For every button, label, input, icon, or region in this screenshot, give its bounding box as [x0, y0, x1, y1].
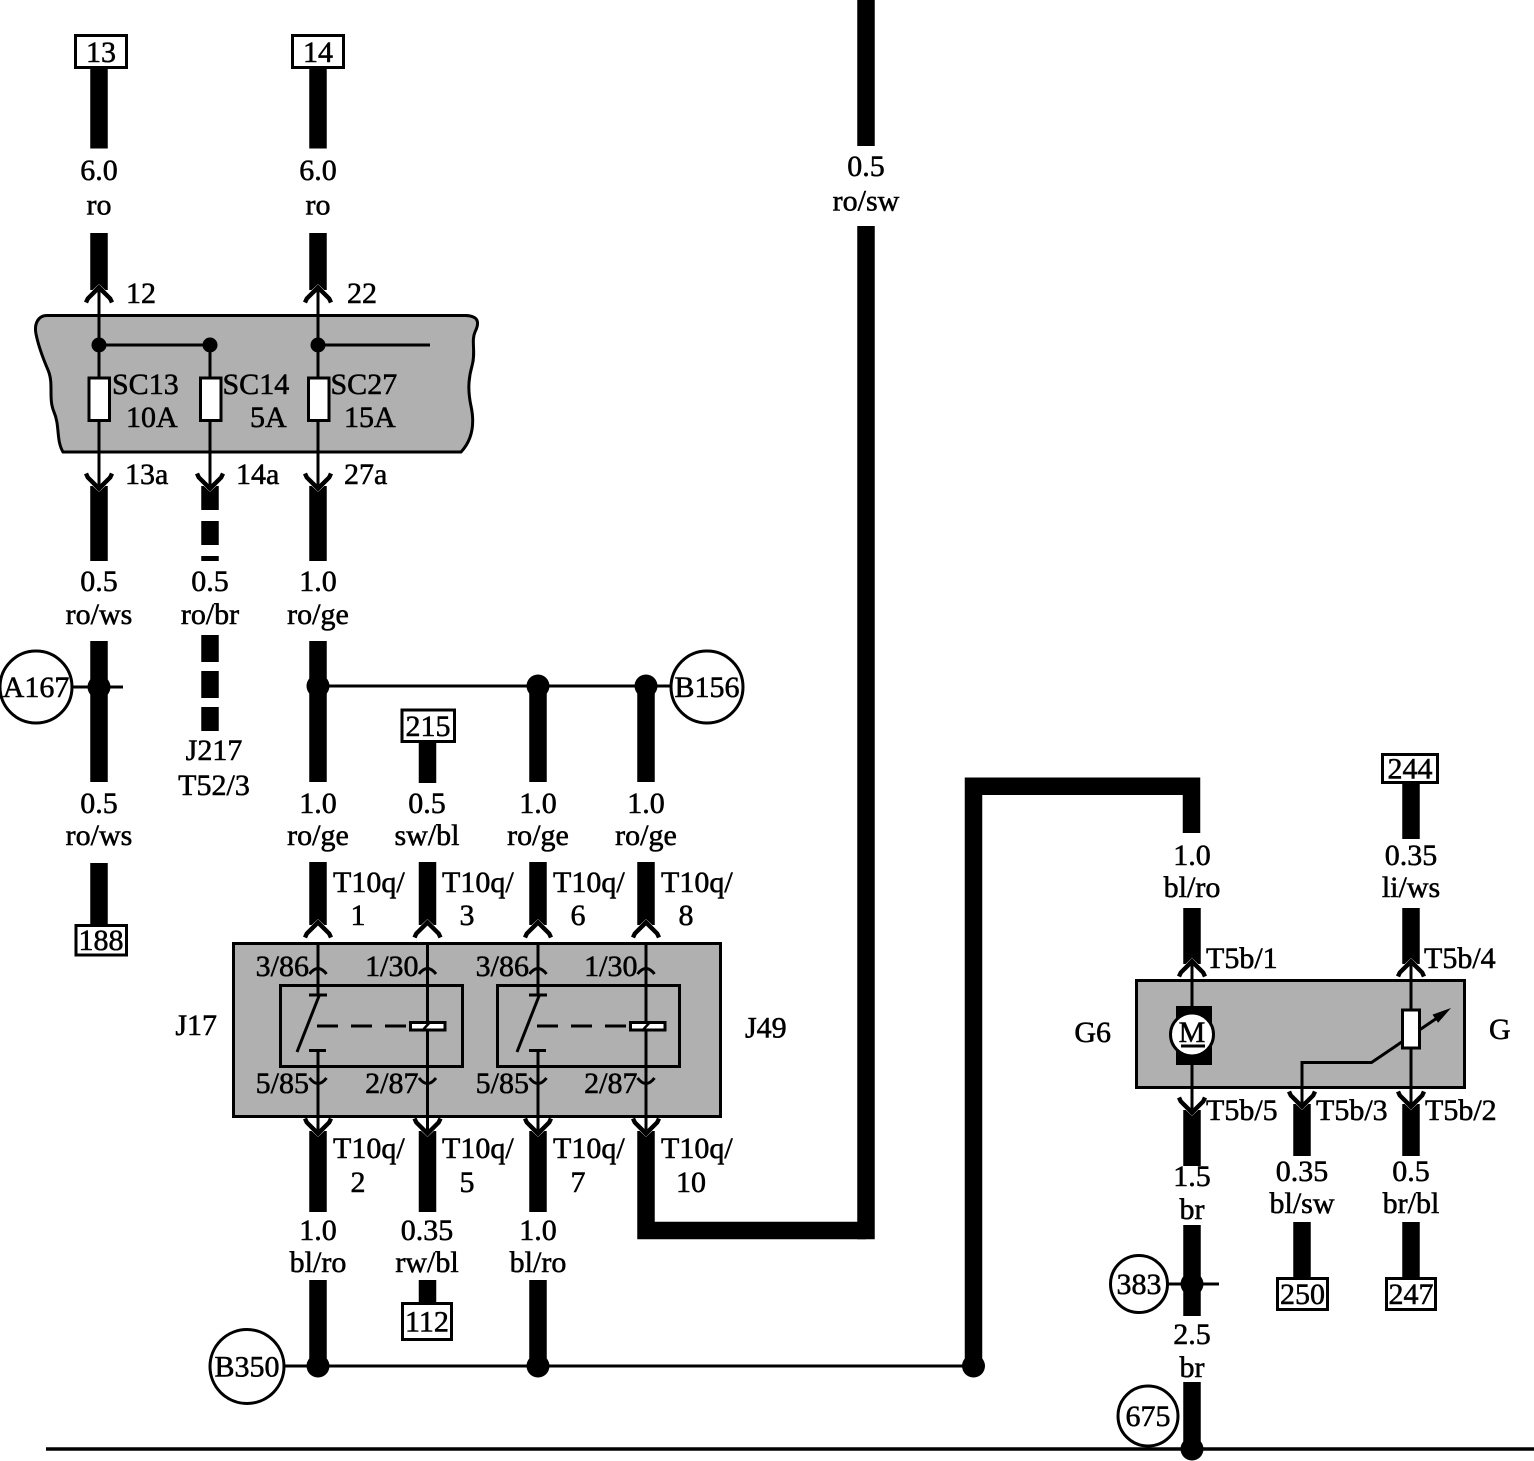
svg-text:ro/ge: ro/ge [287, 819, 349, 852]
svg-text:1/30: 1/30 [584, 950, 637, 983]
svg-text:244: 244 [1388, 753, 1433, 786]
svg-text:SC13: SC13 [112, 368, 179, 401]
svg-text:2: 2 [351, 1166, 366, 1199]
svg-text:1.0: 1.0 [627, 787, 665, 820]
svg-text:247: 247 [1389, 1278, 1434, 1311]
svg-text:1.0: 1.0 [519, 1214, 557, 1247]
svg-text:1.5: 1.5 [1173, 1160, 1211, 1193]
svg-text:ro/sw: ro/sw [833, 185, 900, 218]
svg-text:M: M [1179, 1016, 1206, 1049]
svg-text:T10q/: T10q/ [442, 1132, 514, 1165]
svg-text:383: 383 [1117, 1268, 1162, 1301]
svg-text:SC27: SC27 [331, 368, 398, 401]
svg-text:0.35: 0.35 [1385, 839, 1438, 872]
svg-text:10A: 10A [126, 401, 178, 434]
svg-text:0.5: 0.5 [80, 787, 118, 820]
svg-text:B156: B156 [674, 671, 739, 704]
svg-text:br: br [1180, 1351, 1205, 1384]
svg-text:T10q/: T10q/ [333, 1132, 405, 1165]
svg-text:13: 13 [86, 36, 116, 69]
svg-text:bl/ro: bl/ro [510, 1246, 567, 1279]
svg-text:3: 3 [460, 899, 475, 932]
svg-text:0.5: 0.5 [408, 787, 446, 820]
svg-text:5/85: 5/85 [476, 1067, 529, 1100]
svg-text:br/bl: br/bl [1383, 1187, 1440, 1220]
svg-text:br: br [1180, 1193, 1205, 1226]
svg-text:ro/ws: ro/ws [66, 598, 133, 631]
svg-text:ro/ge: ro/ge [287, 598, 349, 631]
svg-text:T10q/: T10q/ [661, 1132, 733, 1165]
svg-text:1.0: 1.0 [299, 1214, 337, 1247]
svg-text:5/85: 5/85 [256, 1067, 309, 1100]
svg-text:188: 188 [79, 924, 124, 957]
svg-text:0.35: 0.35 [401, 1214, 454, 1247]
svg-text:15A: 15A [344, 401, 396, 434]
svg-text:bl/ro: bl/ro [1164, 871, 1221, 904]
svg-text:675: 675 [1126, 1400, 1171, 1433]
svg-text:250: 250 [1280, 1278, 1325, 1311]
svg-text:6: 6 [571, 899, 586, 932]
svg-text:27a: 27a [344, 458, 387, 491]
svg-text:T5b/5: T5b/5 [1206, 1094, 1278, 1127]
svg-text:ro/br: ro/br [181, 598, 239, 631]
svg-text:J17: J17 [175, 1009, 217, 1042]
svg-text:12: 12 [126, 277, 156, 310]
svg-text:T5b/3: T5b/3 [1316, 1094, 1388, 1127]
svg-text:li/ws: li/ws [1382, 871, 1440, 904]
svg-text:6.0: 6.0 [80, 154, 118, 187]
svg-text:0.35: 0.35 [1276, 1155, 1329, 1188]
svg-text:B350: B350 [214, 1351, 279, 1384]
svg-text:ro/ge: ro/ge [507, 819, 569, 852]
svg-text:T5b/4: T5b/4 [1424, 942, 1496, 975]
svg-text:T10q/: T10q/ [333, 866, 405, 899]
svg-text:J49: J49 [745, 1012, 787, 1045]
svg-text:8: 8 [679, 899, 694, 932]
svg-text:A167: A167 [3, 671, 70, 704]
svg-text:T10q/: T10q/ [553, 1132, 625, 1165]
svg-text:1.0: 1.0 [299, 565, 337, 598]
svg-text:T10q/: T10q/ [553, 866, 625, 899]
svg-text:bl/sw: bl/sw [1269, 1187, 1334, 1220]
svg-text:7: 7 [571, 1166, 586, 1199]
svg-text:2/87: 2/87 [584, 1067, 637, 1100]
svg-text:G: G [1489, 1013, 1511, 1046]
svg-text:1.0: 1.0 [1173, 839, 1211, 872]
svg-text:3/86: 3/86 [476, 950, 529, 983]
svg-text:rw/bl: rw/bl [395, 1246, 458, 1279]
svg-text:SC14: SC14 [223, 368, 290, 401]
svg-text:T10q/: T10q/ [442, 866, 514, 899]
svg-text:T52/3: T52/3 [178, 769, 250, 802]
svg-text:0.5: 0.5 [80, 565, 118, 598]
svg-text:215: 215 [406, 710, 451, 743]
svg-text:ro: ro [87, 189, 112, 222]
svg-text:T5b/1: T5b/1 [1206, 942, 1278, 975]
svg-text:5: 5 [460, 1166, 475, 1199]
svg-text:1: 1 [351, 899, 366, 932]
svg-text:1/30: 1/30 [365, 950, 418, 983]
svg-text:ro/ge: ro/ge [615, 819, 677, 852]
svg-text:14a: 14a [236, 458, 279, 491]
svg-text:G6: G6 [1074, 1016, 1111, 1049]
svg-text:0.5: 0.5 [1392, 1155, 1430, 1188]
svg-text:ro: ro [306, 189, 331, 222]
svg-text:ro/ws: ro/ws [66, 819, 133, 852]
svg-text:6.0: 6.0 [299, 154, 337, 187]
svg-text:sw/bl: sw/bl [394, 819, 459, 852]
svg-text:2/87: 2/87 [365, 1067, 418, 1100]
svg-text:J217: J217 [186, 734, 243, 767]
svg-text:0.5: 0.5 [847, 150, 885, 183]
svg-text:0.5: 0.5 [191, 565, 229, 598]
svg-text:10: 10 [676, 1166, 706, 1199]
svg-text:1.0: 1.0 [519, 787, 557, 820]
svg-text:112: 112 [405, 1306, 449, 1339]
svg-text:3/86: 3/86 [256, 950, 309, 983]
svg-text:14: 14 [303, 36, 333, 69]
svg-text:5A: 5A [250, 401, 287, 434]
svg-text:13a: 13a [125, 458, 168, 491]
svg-text:22: 22 [347, 277, 377, 310]
svg-text:T5b/2: T5b/2 [1425, 1094, 1497, 1127]
svg-text:T10q/: T10q/ [661, 866, 733, 899]
svg-text:1.0: 1.0 [299, 787, 337, 820]
svg-text:bl/ro: bl/ro [290, 1246, 347, 1279]
svg-text:2.5: 2.5 [1173, 1318, 1211, 1351]
